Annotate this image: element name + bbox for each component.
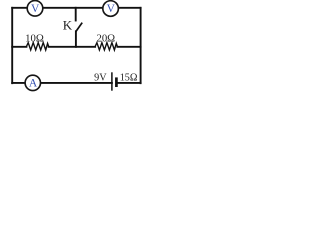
svg-text:K: K	[63, 18, 73, 33]
svg-text:9V: 9V	[94, 73, 107, 84]
svg-text:15Ω: 15Ω	[120, 73, 138, 84]
svg-text:10Ω: 10Ω	[25, 33, 44, 45]
svg-text:A: A	[29, 78, 38, 90]
svg-text:V: V	[107, 3, 116, 15]
svg-text:V: V	[31, 3, 40, 15]
svg-text:20Ω: 20Ω	[96, 33, 115, 45]
